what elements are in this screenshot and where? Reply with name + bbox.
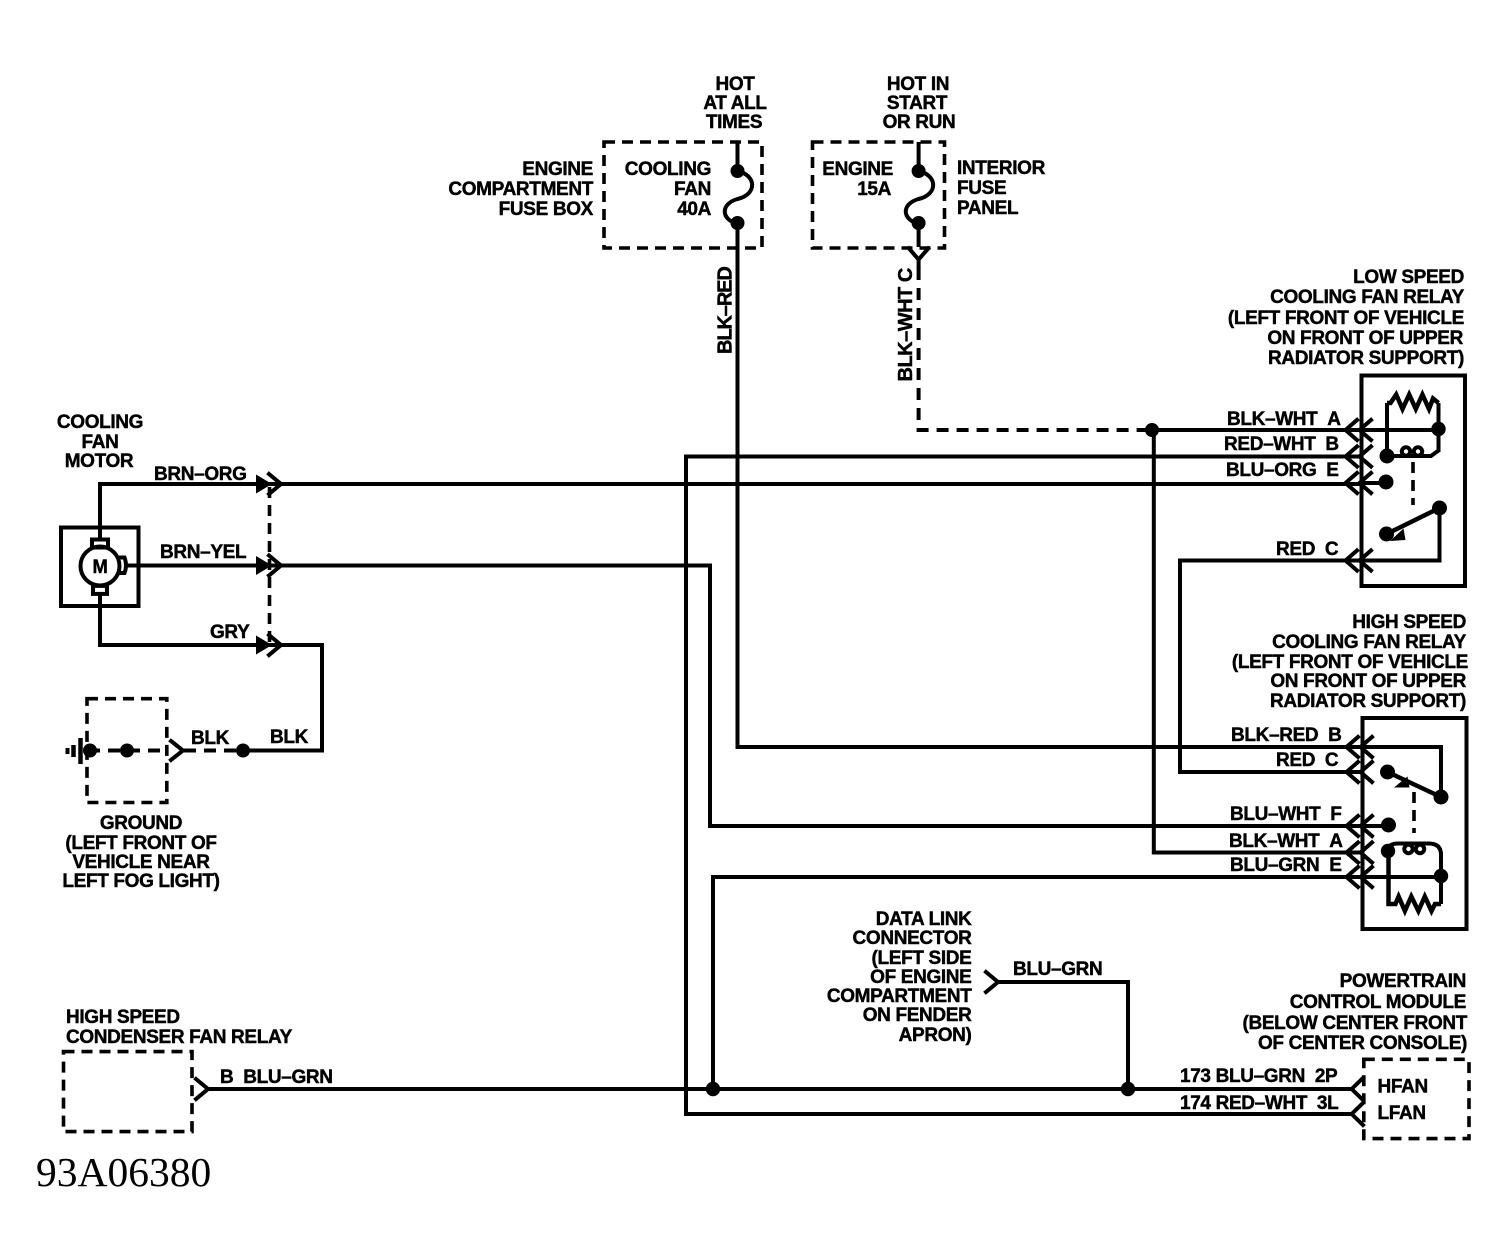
svg-text:TIMES: TIMES [706, 112, 762, 133]
splice node BLK [236, 744, 250, 758]
svg-text:ON FRONT OF UPPER: ON FRONT OF UPPER [1270, 671, 1466, 692]
svg-text:VEHICLE NEAR: VEHICLE NEAR [72, 852, 210, 873]
svg-text:RED C: RED C [1276, 750, 1339, 771]
wire B BLU-GRN from condenser fan relay to PCM HFAN [208, 1066, 1351, 1089]
svg-text:AT ALL: AT ALL [703, 93, 767, 114]
fuse F2 ENGINE 15A symbol [906, 142, 933, 247]
svg-text:BRN–ORG: BRN–ORG [154, 464, 247, 485]
svg-text:FUSE BOX: FUSE BOX [499, 199, 594, 220]
relay K1 pin E stub and terminal dot [1362, 481, 1386, 485]
connector chevron (data link connector) [986, 972, 998, 992]
svg-text:BLK–WHT A: BLK–WHT A [1229, 831, 1343, 852]
ground box (dashed) [87, 699, 167, 803]
wire GRY from motor to ground splice [100, 593, 322, 751]
label ENGINE COMPARTMENT FUSE BOX [448, 159, 593, 220]
svg-text:MOTOR: MOTOR [65, 451, 134, 472]
label HOT AT ALL TIMES [703, 74, 767, 133]
svg-text:RED–WHT B: RED–WHT B [1224, 434, 1339, 455]
svg-text:(LEFT FRONT OF: (LEFT FRONT OF [65, 833, 216, 854]
relay K1 coil-to-switch dashed link [1411, 462, 1415, 505]
svg-text:CONTROL MODULE: CONTROL MODULE [1290, 992, 1466, 1013]
svg-text:40A: 40A [677, 199, 711, 220]
connector C (Y symbol) below interior fuse panel [909, 249, 928, 268]
fuse ENGINE 15A value label [822, 159, 893, 200]
svg-text:173 BLU–GRN 2P: 173 BLU–GRN 2P [1180, 1066, 1338, 1087]
splice node (data link BLU-GRN) [1121, 1082, 1135, 1096]
svg-text:BRN–YEL: BRN–YEL [160, 542, 247, 563]
svg-text:HFAN: HFAN [1378, 1077, 1428, 1098]
svg-text:ON FENDER: ON FENDER [863, 1005, 972, 1026]
wire BLK-RED from fuse F1 down to high speed relay pin B [715, 224, 1363, 747]
svg-text:174 RED–WHT 3L: 174 RED–WHT 3L [1180, 1093, 1339, 1114]
wire BRN-YEL from motor to high speed relay pin F [127, 542, 1362, 826]
svg-text:POWERTRAIN: POWERTRAIN [1340, 971, 1466, 992]
wire BRN-ORG from motor to low speed relay pin E [100, 464, 1361, 539]
relay K2 pin F stub and terminal dot [1363, 824, 1388, 828]
label HOT IN START OR RUN [883, 74, 956, 133]
relay K2 pin A terminal dot and coil [1381, 844, 1441, 859]
svg-text:BLU–ORG E: BLU–ORG E [1226, 460, 1339, 481]
relay K2 switch [1380, 765, 1449, 805]
svg-text:HOT: HOT [715, 74, 755, 95]
relay K1 pin B terminal dot [1380, 449, 1395, 464]
fuse COOLING FAN 40A value label [625, 159, 712, 220]
svg-text:BLK–RED B: BLK–RED B [1231, 725, 1342, 746]
svg-text:93A06380: 93A06380 [36, 1149, 211, 1195]
label LOW SPEED COOLING FAN RELAY (location) [1228, 267, 1465, 369]
svg-text:HIGH SPEED: HIGH SPEED [1352, 612, 1466, 633]
wire BLK-WHT A down to high speed relay [1154, 430, 1362, 853]
svg-text:GROUND: GROUND [100, 813, 182, 834]
svg-text:HOT IN: HOT IN [887, 74, 949, 95]
relay K2 pin B internal wire to switch contact [1363, 747, 1442, 797]
connector chevron (condenser fan relay pin B) [196, 1079, 208, 1099]
svg-text:BLK–WHT A: BLK–WHT A [1227, 409, 1341, 430]
svg-text:BLK: BLK [270, 727, 309, 748]
svg-text:PANEL: PANEL [957, 198, 1019, 219]
svg-text:GRY: GRY [210, 622, 250, 643]
svg-text:LEFT FOG LIGHT): LEFT FOG LIGHT) [62, 871, 219, 892]
svg-text:BLK–WHT C: BLK–WHT C [895, 268, 917, 381]
label COOLING FAN MOTOR [57, 412, 143, 472]
engine compartment fuse box (dashed) [604, 142, 762, 248]
svg-text:FUSE: FUSE [957, 178, 1006, 199]
svg-text:BLU–GRN E: BLU–GRN E [1230, 855, 1342, 876]
relay K1 pin connectors (chevrons) [1346, 420, 1372, 571]
svg-text:BLK–RED: BLK–RED [715, 267, 737, 354]
PCM pin LFAN label and connector chevron [1352, 1103, 1426, 1125]
svg-text:BLU–WHT F: BLU–WHT F [1230, 804, 1342, 825]
svg-text:FAN: FAN [82, 432, 119, 453]
high speed condenser fan relay box (dashed) [64, 1052, 193, 1132]
label HIGH SPEED CONDENSER FAN RELAY [66, 1007, 293, 1048]
svg-text:ENGINE: ENGINE [522, 159, 593, 180]
svg-text:15A: 15A [857, 179, 891, 200]
svg-text:B BLU–GRN: B BLU–GRN [220, 1067, 333, 1088]
relay K2 internal right leg [1439, 852, 1443, 904]
svg-text:BLK: BLK [191, 728, 230, 749]
relay K2 resistor [1389, 851, 1442, 911]
svg-text:COOLING FAN RELAY: COOLING FAN RELAY [1270, 287, 1465, 308]
svg-text:CONDENSER FAN RELAY: CONDENSER FAN RELAY [66, 1027, 293, 1048]
wire BLK-WHT A to low speed relay [1152, 409, 1361, 430]
svg-text:START: START [887, 93, 948, 114]
relay K1 low speed cooling fan relay box [1362, 376, 1466, 587]
PCM pin HFAN label and connector chevron [1352, 1077, 1428, 1101]
inline connector (motor harness, dashed) [256, 474, 281, 655]
relay K1 resistor [1387, 395, 1439, 410]
svg-text:(BELOW CENTER FRONT: (BELOW CENTER FRONT [1243, 1013, 1468, 1034]
wire BLU-GRN E from high speed relay to splice [713, 855, 1363, 1089]
label INTERIOR FUSE PANEL [957, 158, 1046, 219]
svg-text:(LEFT FRONT OF VEHICLE: (LEFT FRONT OF VEHICLE [1232, 652, 1468, 673]
svg-text:ENGINE: ENGINE [822, 159, 893, 180]
svg-text:CONNECTOR: CONNECTOR [853, 928, 973, 949]
interior fuse panel box (dashed) [813, 142, 945, 248]
svg-text:RADIATOR SUPPORT): RADIATOR SUPPORT) [1268, 348, 1464, 369]
svg-text:HIGH SPEED: HIGH SPEED [66, 1007, 180, 1028]
wire RED C from low speed relay to high speed relay [1180, 539, 1363, 772]
svg-text:APRON): APRON) [899, 1025, 972, 1046]
label HIGH SPEED COOLING FAN RELAY (location) [1232, 612, 1468, 712]
powertrain control module box (dashed) [1364, 1059, 1469, 1138]
label GROUND (LEFT FRONT OF VEHICLE NEAR LEFT FOG LIGHT) [62, 813, 219, 892]
relay K1 resistor legs [1385, 403, 1389, 456]
relay K1 pin A internal wire and terminal dot [1362, 428, 1439, 432]
relay K2 coil-to-switch dashed link [1412, 792, 1416, 833]
splice node (BRN-YEL / BLU-GRN) [706, 1082, 720, 1096]
svg-text:OF ENGINE: OF ENGINE [870, 967, 971, 988]
label DATA LINK CONNECTOR (location) [827, 909, 972, 1046]
connector chevron (ground lead) [171, 741, 183, 760]
relay K2 pin connectors (chevrons) [1347, 737, 1373, 887]
svg-text:LOW SPEED: LOW SPEED [1353, 267, 1464, 288]
svg-text:LFAN: LFAN [1378, 1103, 1426, 1124]
fuse F1 COOLING FAN 40A symbol [725, 142, 752, 230]
relay K1 switch [1362, 501, 1448, 561]
svg-text:COMPARTMENT: COMPARTMENT [448, 179, 593, 200]
svg-text:COOLING: COOLING [625, 159, 711, 180]
svg-text:COOLING: COOLING [57, 412, 143, 433]
svg-text:OF CENTER CONSOLE): OF CENTER CONSOLE) [1258, 1033, 1467, 1054]
wire BLU-GRN from data link connector to splice [998, 959, 1128, 1089]
svg-text:ON FRONT OF UPPER: ON FRONT OF UPPER [1267, 328, 1463, 349]
ground symbol G100 [68, 738, 81, 764]
svg-text:RADIATOR SUPPORT): RADIATOR SUPPORT) [1270, 691, 1466, 712]
svg-text:RED C: RED C [1276, 539, 1339, 560]
svg-text:BLU–GRN: BLU–GRN [1013, 959, 1102, 980]
svg-text:DATA LINK: DATA LINK [876, 909, 972, 930]
relay K2 pin E internal wire and terminal dot [1363, 875, 1442, 879]
wire RED-WHT from low speed relay pin B to PCM LFAN [686, 457, 1362, 1115]
motor M1 (cooling fan motor) [61, 528, 139, 607]
svg-text:COMPARTMENT: COMPARTMENT [827, 986, 972, 1007]
junction node (BLK-WHT splice) [1145, 423, 1159, 437]
relay K2 high speed cooling fan relay box [1363, 718, 1467, 929]
svg-text:INTERIOR: INTERIOR [957, 158, 1046, 179]
svg-text:M: M [93, 557, 108, 578]
wire BLK (dashed) from splice to ground connector [184, 727, 309, 751]
svg-text:OR RUN: OR RUN [883, 112, 956, 133]
relay K1 coil [1387, 447, 1439, 456]
svg-text:COOLING FAN RELAY: COOLING FAN RELAY [1272, 632, 1467, 653]
wire BLK-WHT C (dashed) from fuse panel to junction [895, 268, 1146, 430]
svg-text:FAN: FAN [674, 179, 711, 200]
svg-text:(LEFT SIDE: (LEFT SIDE [872, 948, 972, 969]
ground wire and splices inside ground box [83, 744, 168, 758]
label POWERTRAIN CONTROL MODULE (location) [1243, 971, 1468, 1054]
svg-text:(LEFT FRONT OF VEHICLE: (LEFT FRONT OF VEHICLE [1228, 308, 1464, 329]
